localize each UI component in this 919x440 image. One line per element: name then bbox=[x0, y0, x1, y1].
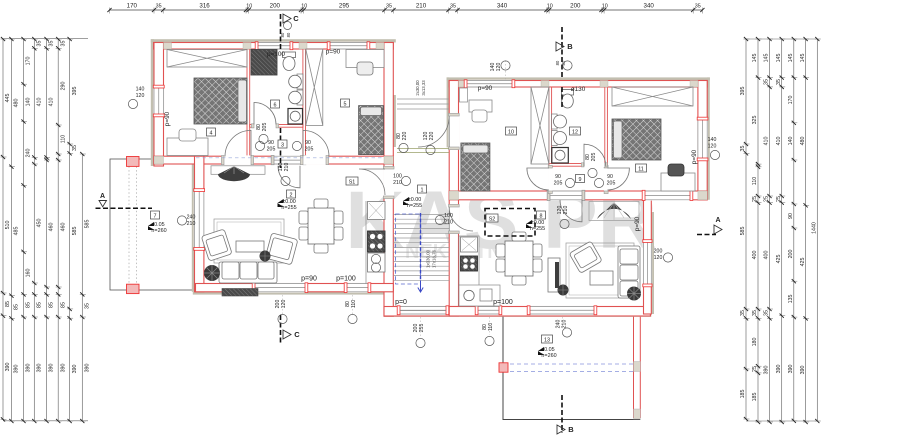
svg-text:210: 210 bbox=[563, 206, 569, 215]
living A sofa bbox=[219, 262, 277, 283]
svg-text:35: 35 bbox=[764, 310, 770, 316]
terrace room 13 outline bbox=[503, 314, 640, 420]
living B plant 1 bbox=[627, 287, 641, 301]
svg-text:120: 120 bbox=[654, 255, 663, 261]
svg-text:390: 390 bbox=[49, 364, 55, 373]
svg-text:205: 205 bbox=[305, 147, 314, 153]
svg-text:200: 200 bbox=[270, 3, 281, 10]
door leaf+swing: room4 door bbox=[225, 130, 251, 156]
svg-text:p=90: p=90 bbox=[164, 111, 171, 126]
svg-text:340: 340 bbox=[644, 3, 655, 10]
svg-text:110: 110 bbox=[752, 177, 758, 185]
living B rug bbox=[566, 243, 634, 298]
room4 chair bbox=[179, 129, 196, 141]
svg-text:25: 25 bbox=[752, 366, 758, 372]
svg-text:ø130: ø130 bbox=[571, 86, 586, 93]
svg-text:90: 90 bbox=[268, 140, 274, 146]
insulation living B right bbox=[651, 212, 654, 314]
living A rug bbox=[214, 219, 284, 263]
room5 bed pillow bbox=[361, 107, 382, 116]
svg-text:25: 25 bbox=[764, 196, 770, 202]
left dimension chains bbox=[1, 37, 91, 423]
window: room11 right 140/120 bbox=[697, 120, 708, 158]
svg-text:140: 140 bbox=[708, 137, 717, 143]
svg-text:C: C bbox=[294, 330, 300, 339]
svg-text:585: 585 bbox=[740, 227, 746, 236]
room10 bed bbox=[461, 143, 490, 191]
section A line left bbox=[96, 207, 153, 209]
svg-text:p=90: p=90 bbox=[326, 49, 341, 56]
wall: top-right block top exterior bbox=[449, 81, 707, 88]
dining B table bbox=[505, 241, 533, 276]
insulation TR left (corridor side) bbox=[447, 77, 450, 147]
wall: top-right block bottom (bedroom/living divider) bbox=[449, 191, 707, 200]
svg-text:S1: S1 bbox=[349, 179, 356, 185]
partition: bath6 | room5 bbox=[303, 49, 306, 156]
svg-text:240: 240 bbox=[26, 149, 32, 158]
wall: living B bottom exterior bbox=[449, 307, 650, 317]
svg-text:210: 210 bbox=[444, 220, 453, 226]
svg-text:6: 6 bbox=[274, 102, 277, 108]
room4 desk bbox=[167, 138, 208, 156]
svg-text:390: 390 bbox=[5, 363, 11, 372]
door opening: hall to living A door 100/210 bbox=[383, 169, 394, 196]
svg-text:p=90: p=90 bbox=[301, 276, 317, 283]
living B stove bbox=[461, 256, 478, 271]
wall: top-left block right / hall left upper bbox=[384, 43, 393, 167]
room number labels bbox=[207, 128, 216, 136]
svg-text:205: 205 bbox=[262, 123, 268, 132]
svg-text:35: 35 bbox=[156, 4, 162, 10]
svg-text:485: 485 bbox=[14, 227, 20, 236]
svg-text:205: 205 bbox=[554, 181, 563, 187]
room10 bed pillow bbox=[463, 145, 488, 153]
svg-text:480: 480 bbox=[14, 99, 20, 108]
svg-text:10: 10 bbox=[246, 4, 252, 10]
svg-text:145: 145 bbox=[764, 54, 770, 63]
bath6 sink 2 bbox=[297, 90, 303, 105]
window: hall9 to living B door 120/210 bbox=[550, 190, 582, 200]
svg-text:200: 200 bbox=[570, 3, 581, 10]
terrace 7 corner post top bbox=[127, 157, 140, 167]
wall: top-left block top exterior bbox=[154, 43, 394, 50]
insulation TL top bbox=[151, 39, 396, 42]
svg-text:205: 205 bbox=[591, 153, 597, 162]
svg-text:135: 135 bbox=[788, 295, 794, 304]
svg-text:145: 145 bbox=[788, 54, 794, 63]
living B deck rail bbox=[589, 202, 639, 221]
door leaf+swing: room11 door bbox=[607, 168, 629, 190]
kitchen A counter edge bbox=[365, 201, 367, 284]
bath12 sink 1 bbox=[552, 114, 558, 129]
wall: top-right block right exterior bbox=[698, 81, 707, 200]
window: bath6 top bbox=[258, 42, 290, 50]
svg-text:390: 390 bbox=[14, 365, 20, 374]
section A line right bbox=[697, 234, 716, 236]
svg-text:35: 35 bbox=[776, 79, 782, 85]
svg-text:13: 13 bbox=[544, 337, 550, 343]
door opening: room11 door 90/205 bbox=[604, 168, 608, 191]
svg-text:9: 9 bbox=[579, 177, 582, 183]
svg-text:h=255: h=255 bbox=[530, 226, 545, 232]
svg-text:450: 450 bbox=[37, 219, 43, 228]
svg-text:145: 145 bbox=[776, 54, 782, 63]
svg-text:3x13,33: 3x13,33 bbox=[421, 80, 426, 96]
partition: bath6 bottom stub bbox=[250, 125, 254, 128]
svg-text:p=100: p=100 bbox=[493, 299, 513, 306]
living A armchair left bbox=[201, 229, 232, 261]
partition: bath12 | room11 bbox=[605, 87, 608, 191]
svg-text:460: 460 bbox=[49, 223, 55, 232]
window: deck door bbox=[645, 190, 690, 200]
living A TV sideboard bbox=[211, 166, 265, 175]
svg-text:h=255: h=255 bbox=[407, 203, 422, 209]
svg-text:10: 10 bbox=[602, 4, 608, 10]
stairs ceiling-opening dashed (blue) bbox=[396, 214, 421, 284]
svg-text:1: 1 bbox=[421, 187, 424, 193]
living B fridge bbox=[461, 237, 478, 252]
bath12 sink 2 bbox=[552, 131, 558, 146]
svg-text:2x30,00: 2x30,00 bbox=[415, 80, 420, 96]
room4 bed bbox=[194, 78, 247, 124]
svg-text:185: 185 bbox=[752, 393, 758, 402]
door opening: bath12 door 80/205 bbox=[584, 163, 605, 167]
svg-text:110: 110 bbox=[488, 323, 494, 331]
svg-text:390: 390 bbox=[85, 364, 91, 373]
svg-text:10: 10 bbox=[547, 4, 553, 10]
svg-text:585: 585 bbox=[85, 220, 91, 229]
wall junction blocks bbox=[164, 43, 172, 50]
terrace 13 right red edge bbox=[634, 314, 641, 418]
svg-text:395: 395 bbox=[72, 87, 78, 96]
living A coffee table bbox=[236, 241, 264, 252]
svg-text:12: 12 bbox=[572, 129, 578, 135]
partition: room4 | bath6 bbox=[247, 49, 250, 156]
svg-text:140: 140 bbox=[788, 137, 794, 146]
living B sofa bbox=[618, 246, 640, 298]
svg-text:35: 35 bbox=[695, 4, 701, 10]
partition: bath6 bottom wall bbox=[276, 125, 303, 128]
room10 desk bbox=[469, 100, 492, 112]
svg-text:480: 480 bbox=[800, 137, 806, 146]
terrace room 7 outline bbox=[110, 159, 196, 290]
living A armchair right bbox=[265, 233, 298, 265]
svg-text:390: 390 bbox=[72, 365, 78, 374]
svg-text:120: 120 bbox=[708, 144, 717, 150]
svg-text:145: 145 bbox=[800, 54, 806, 63]
insulation TR right bbox=[707, 77, 710, 199]
svg-text:p=90: p=90 bbox=[634, 216, 641, 231]
insulation TR top bbox=[447, 77, 710, 80]
door opening: room4 door 90/205 bbox=[224, 155, 251, 164]
svg-text:390: 390 bbox=[788, 365, 794, 374]
svg-text:170: 170 bbox=[26, 57, 32, 66]
partition: room10 | bath12 bbox=[549, 87, 552, 191]
svg-text:100: 100 bbox=[444, 213, 453, 219]
bath12 washing machine bbox=[552, 148, 569, 164]
svg-text:425: 425 bbox=[800, 258, 806, 267]
svg-text:410: 410 bbox=[776, 137, 782, 146]
svg-text:C: C bbox=[293, 14, 299, 23]
window: room10 top 140/120 bbox=[467, 80, 512, 88]
window: living B bottom 80/110 bbox=[478, 306, 499, 315]
svg-text:205: 205 bbox=[267, 147, 276, 153]
dining A table bbox=[308, 208, 334, 244]
svg-text:85: 85 bbox=[60, 302, 66, 308]
svg-text:160: 160 bbox=[26, 269, 32, 278]
svg-text:410: 410 bbox=[37, 98, 43, 107]
svg-text:35: 35 bbox=[85, 303, 91, 309]
svg-text:35: 35 bbox=[740, 310, 746, 316]
svg-text:35: 35 bbox=[752, 310, 758, 316]
svg-text:85: 85 bbox=[5, 301, 11, 307]
stairs direction arrow bbox=[418, 281, 423, 292]
svg-text:85: 85 bbox=[14, 304, 20, 310]
svg-text:200: 200 bbox=[654, 249, 663, 255]
svg-text:35: 35 bbox=[72, 145, 78, 151]
svg-text:390: 390 bbox=[776, 365, 782, 374]
dining A chairs bbox=[299, 199, 343, 253]
room11 bed bbox=[612, 119, 661, 160]
section C marker bottom bbox=[283, 330, 291, 339]
svg-text:h=255: h=255 bbox=[281, 205, 296, 211]
svg-text:445: 445 bbox=[5, 94, 11, 103]
living A plant 2 bbox=[260, 251, 271, 262]
svg-text:100: 100 bbox=[393, 174, 402, 180]
door leaf+swing: livingB hall9 door swing bbox=[560, 200, 582, 222]
svg-text:35: 35 bbox=[60, 41, 66, 47]
wall: top-right block left / hall right wall bbox=[449, 81, 458, 317]
svg-text:240: 240 bbox=[187, 215, 196, 221]
svg-text:170: 170 bbox=[788, 96, 794, 105]
window: hall entry door 200/255 bbox=[400, 306, 446, 315]
svg-text:110: 110 bbox=[351, 300, 357, 308]
svg-text:25: 25 bbox=[752, 196, 758, 202]
window: room4 left 140/120 bbox=[153, 88, 164, 114]
terrace 7 corner post bottom bbox=[127, 284, 140, 293]
watermark bbox=[345, 175, 657, 266]
svg-text:85: 85 bbox=[37, 302, 43, 308]
svg-text:8: 8 bbox=[540, 213, 543, 219]
section C line top bbox=[280, 14, 282, 168]
room11 chair bbox=[668, 164, 684, 176]
room11 bed pillow bbox=[614, 121, 623, 158]
insulation hall+living B bottom bbox=[384, 314, 651, 317]
door leaf+swing: vestibule door bbox=[418, 116, 449, 147]
living B armchair bbox=[569, 241, 602, 273]
svg-text:25: 25 bbox=[776, 196, 782, 202]
svg-text:90: 90 bbox=[305, 140, 311, 146]
svg-text:400: 400 bbox=[752, 251, 758, 260]
svg-text:35: 35 bbox=[37, 41, 43, 47]
svg-text:3: 3 bbox=[281, 142, 284, 148]
window: living A bottom 200/120 bbox=[255, 283, 305, 293]
living B coffee table bbox=[590, 271, 613, 285]
wall: hall bottom exterior bbox=[384, 307, 459, 317]
wall: top-left block left exterior bbox=[154, 43, 164, 167]
svg-text:h=260: h=260 bbox=[541, 353, 556, 359]
bath6 shower bbox=[251, 50, 277, 76]
door leaf+swing: hall-livingA door bbox=[359, 169, 385, 195]
svg-text:410: 410 bbox=[49, 98, 55, 107]
window: room5 top 90 parapet bbox=[330, 42, 367, 50]
door opening: bath6 door 80/205 bbox=[254, 124, 276, 128]
room5 wardrobe bbox=[306, 49, 323, 126]
living B S2 dashed outline bbox=[485, 209, 535, 237]
kitchen A fridge bbox=[368, 202, 386, 220]
svg-text:210: 210 bbox=[416, 3, 427, 10]
living B plant 2 bbox=[558, 285, 569, 296]
bath6 sink 1 bbox=[297, 74, 303, 89]
door opening: room10 door 90/205 bbox=[548, 168, 552, 191]
svg-text:85: 85 bbox=[49, 302, 55, 308]
svg-text:220: 220 bbox=[402, 132, 408, 141]
svg-text:145: 145 bbox=[752, 54, 758, 63]
svg-text:585: 585 bbox=[72, 227, 78, 236]
svg-text:140: 140 bbox=[26, 98, 32, 107]
terrace 13 post bbox=[499, 363, 508, 372]
door opening: hall to living B door 100/210 bbox=[448, 207, 459, 231]
svg-text:255: 255 bbox=[419, 324, 425, 333]
svg-text:170: 170 bbox=[127, 3, 138, 10]
svg-text:p=100: p=100 bbox=[267, 51, 285, 58]
svg-text:10: 10 bbox=[301, 4, 307, 10]
entry door leaf bbox=[400, 310, 446, 312]
room10 wall cabinet bbox=[460, 88, 468, 102]
living A TV (fan shape) bbox=[218, 166, 250, 181]
witness lines to window labels bbox=[283, 61, 563, 339]
section B line top bbox=[561, 27, 563, 108]
upper floor projection dashed line (living A top wall) bbox=[196, 157, 384, 159]
vestibule entry steps bbox=[397, 99, 449, 109]
window: hall3 to living A door 120/210 bbox=[274, 155, 303, 164]
room5 desk bbox=[346, 50, 384, 68]
terrace 13 roof dashed lines bbox=[503, 363, 640, 365]
living A plant 1 bbox=[204, 265, 220, 281]
window: living A left slider 240/210 bbox=[194, 192, 205, 248]
section C marker top bbox=[283, 14, 291, 23]
svg-text:210: 210 bbox=[562, 320, 568, 329]
svg-text:395: 395 bbox=[740, 87, 746, 96]
door leaf+swing: room10 door bbox=[527, 168, 549, 190]
vestibule threshold line bbox=[397, 149, 449, 153]
svg-text:h=260: h=260 bbox=[151, 228, 166, 234]
room11 desk bbox=[661, 173, 695, 191]
svg-text:120: 120 bbox=[136, 93, 145, 99]
svg-text:390: 390 bbox=[800, 366, 806, 375]
svg-text:340: 340 bbox=[497, 3, 508, 10]
svg-text:A: A bbox=[715, 217, 720, 224]
room4 wardrobe bbox=[167, 50, 247, 68]
door opening: vestibule door 120/220 bbox=[448, 116, 459, 147]
svg-text:316: 316 bbox=[199, 3, 210, 10]
wall: hall left wall lower bbox=[384, 164, 393, 316]
svg-text:35: 35 bbox=[740, 146, 746, 152]
svg-text:35: 35 bbox=[764, 79, 770, 85]
bath6 toilet bbox=[283, 52, 296, 58]
section B marker bottom bbox=[557, 425, 565, 434]
room5 chair/printer bbox=[357, 62, 373, 75]
wall: living B right exterior bbox=[644, 200, 652, 314]
svg-text:p=100: p=100 bbox=[336, 276, 356, 283]
svg-text:80: 80 bbox=[555, 60, 560, 65]
door leaf+swing: room5 door bbox=[303, 130, 329, 156]
svg-text:1440: 1440 bbox=[812, 222, 818, 234]
svg-text:p=0: p=0 bbox=[395, 299, 407, 306]
svg-text:205: 205 bbox=[607, 181, 616, 187]
bath12 toilet bbox=[562, 90, 574, 96]
svg-text:390: 390 bbox=[60, 364, 66, 373]
svg-text:7: 7 bbox=[154, 213, 157, 219]
svg-text:90: 90 bbox=[607, 174, 613, 180]
insulation TL right (corridor side) bbox=[393, 95, 396, 147]
svg-text:400: 400 bbox=[764, 251, 770, 260]
svg-text:185: 185 bbox=[740, 390, 746, 399]
svg-text:390: 390 bbox=[764, 366, 770, 375]
svg-text:S2: S2 bbox=[489, 216, 496, 222]
living B TV stand bbox=[548, 258, 560, 292]
window: living A bottom 80/110 bbox=[347, 283, 368, 293]
svg-text:2: 2 bbox=[290, 192, 293, 198]
svg-text:90: 90 bbox=[555, 174, 561, 180]
svg-text:410: 410 bbox=[764, 137, 770, 146]
room11 wardrobe bbox=[612, 87, 693, 106]
svg-text:390: 390 bbox=[37, 364, 43, 373]
svg-text:200: 200 bbox=[788, 250, 794, 259]
room4 bed pillow bbox=[238, 80, 247, 122]
svg-text:120: 120 bbox=[281, 300, 287, 309]
section C line bottom bbox=[280, 315, 282, 344]
dining B chairs bbox=[496, 232, 542, 285]
window: living B bottom slider 240/210 bbox=[530, 306, 594, 315]
top dimension chain bbox=[107, 3, 704, 14]
svg-text:1x030,00: 1x030,00 bbox=[426, 249, 431, 268]
svg-text:4: 4 bbox=[210, 130, 213, 136]
stairs rail dashed line (blue) bbox=[420, 213, 422, 281]
svg-text:510: 510 bbox=[5, 221, 11, 230]
door opening: room5 door 90/205 bbox=[303, 155, 326, 164]
living B kitchen counter bbox=[459, 236, 479, 306]
svg-text:140: 140 bbox=[136, 87, 145, 93]
window: living B right 200/120 bbox=[643, 243, 652, 285]
kitchen A stove bbox=[368, 231, 386, 252]
svg-text:p=90: p=90 bbox=[691, 149, 698, 164]
stairs treads bbox=[393, 215, 449, 281]
wall: top-left block bottom (bedroom/living divider) bbox=[154, 156, 394, 164]
living B kitchen corner counter bbox=[459, 285, 500, 306]
svg-text:35: 35 bbox=[386, 4, 392, 10]
wall: living A left exterior bbox=[195, 156, 204, 292]
svg-text:A: A bbox=[100, 193, 105, 200]
door leaf+swing: bath6 door bbox=[254, 103, 276, 125]
insulation TL left bbox=[151, 39, 154, 166]
room10 chair bbox=[472, 110, 487, 122]
right dimension chains bbox=[740, 37, 821, 424]
svg-text:5: 5 bbox=[344, 101, 347, 107]
bath6 washing machine bbox=[288, 109, 303, 125]
room5 bed bbox=[359, 106, 384, 155]
svg-text:17x18,76: 17x18,76 bbox=[432, 249, 437, 268]
living B corner sink bbox=[464, 290, 474, 300]
room10 wardrobe bbox=[531, 87, 549, 164]
svg-text:35: 35 bbox=[450, 4, 456, 10]
svg-text:110: 110 bbox=[60, 135, 66, 143]
section B line bottom bbox=[561, 395, 563, 433]
insulation living A left bbox=[192, 156, 195, 292]
level labels bbox=[278, 199, 284, 207]
partition: bath12 bottom wall bbox=[549, 164, 584, 167]
svg-text:210: 210 bbox=[284, 163, 290, 172]
